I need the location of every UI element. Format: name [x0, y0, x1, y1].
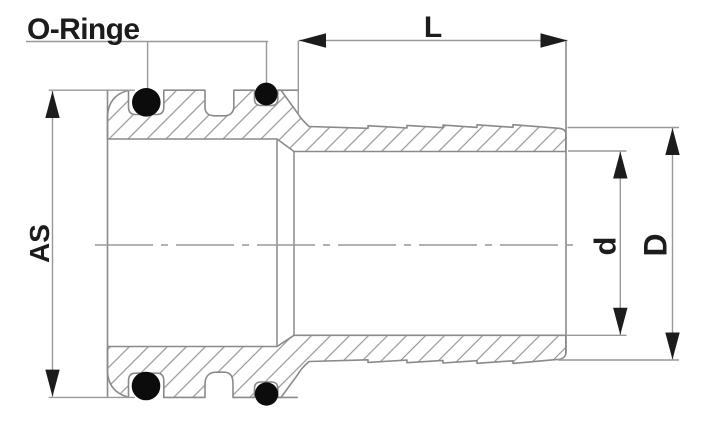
D bottom extension line: [558, 359, 679, 361]
svg-text:AS: AS: [24, 224, 55, 263]
bottom edge segment behind chamfer: [278, 396, 298, 398]
AS top extension line: [49, 89, 135, 91]
AS arrow down: [45, 370, 59, 397]
svg-text:d: d: [588, 237, 623, 256]
O-ring bottom left: [132, 372, 161, 401]
D arrow down: [665, 333, 679, 360]
O-Ringe leader drop to big O-ring: [147, 42, 149, 93]
L arrow right: [541, 33, 568, 47]
D arrow up: [665, 128, 679, 155]
dimension D line: [672, 128, 674, 360]
dimension L line: [299, 40, 568, 42]
O-Ringe leader drop to small O-ring: [266, 42, 268, 89]
dimension AS line: [52, 91, 54, 397]
svg-text:D: D: [638, 233, 674, 256]
L arrow left: [299, 33, 326, 47]
svg-text:O-Ringe: O-Ringe: [27, 13, 139, 46]
barb end face / L right extension line: [565, 41, 567, 354]
top edge segment behind chamfer: [278, 89, 298, 91]
centerline: [95, 244, 576, 246]
fitting body: bottom wall cross-section (hatched): [108, 335, 566, 397]
left end face: [107, 90, 109, 397]
internal step edge: [276, 139, 278, 347]
dimension d line: [619, 152, 621, 335]
fitting body: top wall cross-section (hatched): [108, 90, 566, 151]
AS bottom extension line: [49, 396, 135, 398]
O-ring top right: [255, 83, 278, 106]
O-Ringe leader horizontal: [26, 41, 268, 43]
D top extension line: [568, 127, 680, 129]
L left extension line: [297, 41, 299, 114]
O-ring top left: [132, 88, 161, 117]
AS arrow up: [45, 91, 59, 118]
d arrow down: [613, 308, 627, 335]
O-ring bottom right: [255, 382, 278, 405]
cone far edge: [293, 152, 295, 336]
d bottom extension line: [566, 334, 627, 336]
svg-text:L: L: [424, 11, 442, 44]
d top extension line: [568, 150, 627, 152]
d arrow up: [613, 152, 627, 179]
